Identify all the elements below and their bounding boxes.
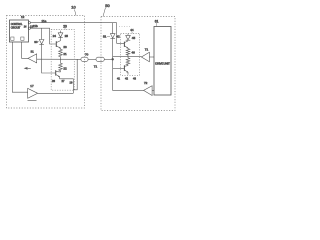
wire 1 (top rail to right unit) xyxy=(30,22,116,24)
label 30 xyxy=(34,40,39,44)
wire: right unit input drop B xyxy=(117,23,125,44)
transistor Q26 xyxy=(56,70,61,77)
svg-text:45: 45 xyxy=(132,36,136,40)
transistor Q23 xyxy=(56,41,60,49)
svg-text:21: 21 xyxy=(63,52,67,56)
wire: diode to Q23 xyxy=(60,38,62,41)
svg-text:51: 51 xyxy=(103,35,107,39)
wire: Q47 base from node line xyxy=(113,67,125,69)
svg-text:70: 70 xyxy=(85,53,89,57)
wire: diode 30 drop from wire 2 xyxy=(41,28,43,39)
wire: connector to node xyxy=(104,58,112,60)
diode D51 xyxy=(110,34,115,39)
wire: loop up to rail xyxy=(73,59,77,90)
right dashed enclosure (unit 50) xyxy=(101,17,175,111)
svg-text:72: 72 xyxy=(144,81,148,85)
terminal circle on wire 2 xyxy=(28,27,30,29)
svg-text:22: 22 xyxy=(63,66,67,70)
label 13c on wire 1 xyxy=(42,19,47,23)
transistor Q43 xyxy=(124,41,128,48)
wire: right unit input drop A xyxy=(112,23,114,34)
label 50 xyxy=(103,3,110,17)
wire 2 xyxy=(30,28,56,44)
op-amp 17 (points right) xyxy=(28,84,38,98)
svg-text:71: 71 xyxy=(145,48,149,52)
label 61 xyxy=(155,20,159,27)
control block U11 xyxy=(10,20,29,42)
diode D45 xyxy=(126,34,131,41)
wire: op-amp 71a to drive unit xyxy=(149,56,154,58)
diode D24 xyxy=(58,33,63,38)
signal arrow xyxy=(25,67,31,69)
svg-text:17: 17 xyxy=(30,84,34,88)
terminal circle on wire 1 xyxy=(28,22,30,24)
pin box 15 xyxy=(11,37,14,40)
op-amp 31 (points left) xyxy=(28,50,37,63)
svg-text:12: 12 xyxy=(21,15,25,19)
svg-text:20: 20 xyxy=(63,25,67,29)
wire between connectors xyxy=(88,58,96,60)
text CONTROL CIRCUIT xyxy=(11,23,27,30)
svg-text:31: 31 xyxy=(31,50,35,54)
resistor R22 xyxy=(59,59,63,72)
wire: opamp31 output to control pin xyxy=(22,42,28,58)
op-amp 71a (points left) xyxy=(141,48,149,62)
pin box 16 xyxy=(21,37,24,40)
wire: control pin 15 down to op-amp 17 xyxy=(12,42,27,92)
svg-text:CONTROL: CONTROL xyxy=(11,23,23,26)
wire: diode to opamp input node xyxy=(42,44,56,73)
wire: diode D51 down to opamp 71b xyxy=(113,38,144,90)
svg-text:23: 23 xyxy=(63,45,67,49)
svg-text:61: 61 xyxy=(155,20,159,24)
svg-text:44: 44 xyxy=(130,28,134,32)
svg-text:46: 46 xyxy=(132,50,136,54)
label 20 xyxy=(63,25,67,30)
svg-text:CIRCUIT: CIRCUIT xyxy=(11,27,21,30)
svg-text:71: 71 xyxy=(94,64,98,68)
wire: op-amp 17 output xyxy=(38,92,74,94)
transistor Q47 xyxy=(124,65,128,74)
junction node xyxy=(112,58,114,60)
label 44 xyxy=(130,28,134,33)
wire: Q26 emitter to loop xyxy=(60,77,74,93)
svg-text:11a: 11a xyxy=(42,19,47,23)
sub-box 20 dashed xyxy=(51,29,74,90)
resistor R46 xyxy=(126,48,130,57)
svg-text:25: 25 xyxy=(65,34,69,38)
leader dashes xyxy=(119,25,130,27)
sub-box 44 dashed xyxy=(121,33,140,75)
svg-text:11b: 11b xyxy=(33,24,38,28)
label 51 xyxy=(103,35,110,39)
wire: opamp31 input rail to connector xyxy=(37,58,81,60)
left dashed enclosure (unit 10) xyxy=(7,16,85,109)
opamp underline xyxy=(28,99,37,101)
label 10 xyxy=(71,5,76,16)
drive unit block 61 xyxy=(154,27,171,96)
connector 70a xyxy=(81,53,89,62)
resistor R48 xyxy=(126,57,130,66)
connector 70b xyxy=(96,57,104,61)
resistor R21 xyxy=(59,48,63,59)
svg-text:24: 24 xyxy=(53,34,57,38)
diode D30 xyxy=(39,40,44,45)
op-amp 71b (points left) xyxy=(144,81,153,95)
rail to op-amp 71a xyxy=(113,57,142,60)
svg-text:30: 30 xyxy=(34,40,38,44)
wire: diode 24 top stub xyxy=(60,31,62,33)
wire: op-amp 71b to drive unit xyxy=(152,89,154,91)
svg-text:DRIVE UNIT: DRIVE UNIT xyxy=(155,62,170,66)
